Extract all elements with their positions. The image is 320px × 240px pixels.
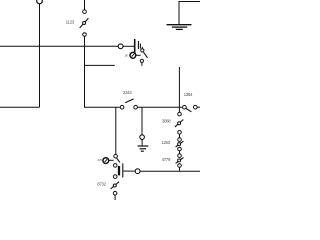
- ground G1 (top right): [167, 25, 192, 30]
- wire bottom bus y=171.4 to right edge: [140, 170, 200, 172]
- switch blade R1-R2: [144, 52, 148, 58]
- switch S5 blade with rotor circle: [111, 182, 120, 189]
- wire from top-right corner: [179, 2, 200, 25]
- wire battery to connector C3: [123, 170, 135, 172]
- switch K1 top terminal: [178, 112, 182, 116]
- wire main bus y=107 right segment: [137, 106, 182, 108]
- terminal R2: [140, 59, 143, 62]
- switch SW2 blade (open): [125, 99, 133, 103]
- switch S1 blade with rotor circle: [80, 18, 89, 28]
- battery B1 thin plate: [122, 163, 124, 177]
- switch SW2 right terminal: [134, 105, 138, 109]
- switch K1 bottom terminal: [178, 131, 182, 135]
- switch SW2 left terminal: [120, 105, 124, 109]
- wire from T1 down to corner at y=107: [39, 4, 41, 107]
- svg-text:26: 26: [125, 54, 129, 58]
- svg-text:4779: 4779: [162, 157, 171, 162]
- switch S5 bottom terminal: [113, 191, 117, 195]
- switch SW3 left terminal: [183, 105, 187, 109]
- wire horizontal bus y=46 left segment: [0, 45, 118, 47]
- wire stub east at y=65: [85, 64, 115, 66]
- gauge M2 ring: [103, 158, 109, 164]
- switch SW4 blade (open): [117, 158, 120, 162]
- wire drop to lamp L1 at x=142: [141, 107, 143, 134]
- switch SW4 top terminal: [114, 154, 118, 158]
- connector circle C2 on bus y=46: [118, 44, 123, 49]
- wire stub below R2: [141, 63, 143, 66]
- connector circle C3: [135, 169, 140, 174]
- wire K1 to K2: [179, 134, 181, 138]
- wire K3 to bottom bus: [179, 167, 181, 171]
- lamp L1 circle: [140, 135, 145, 140]
- switch K2 blade with rotor circle: [176, 141, 184, 147]
- wire from C2 to connector bars: [123, 45, 134, 47]
- ground G2: [138, 146, 149, 151]
- svg-text:8732: 8732: [97, 182, 106, 187]
- svg-text:1123: 1123: [66, 20, 75, 25]
- connector circle T1 (top left, cut by edge): [37, 0, 43, 4]
- gauge M1 ring: [130, 52, 136, 58]
- switch SW4 bottom terminal: [113, 164, 117, 168]
- terminal R1: [141, 49, 144, 52]
- switch S1 bottom terminal: [83, 33, 87, 37]
- connector J1 bar 1: [134, 39, 136, 54]
- svg-text:2343: 2343: [123, 90, 132, 95]
- switch K2 top terminal: [178, 138, 182, 142]
- wire stub above R1 terminal: [141, 47, 143, 49]
- wire L1 to ground: [141, 139, 143, 145]
- switch K3 blade with rotor circle: [176, 158, 184, 164]
- svg-text:1384: 1384: [184, 92, 193, 97]
- battery B1 thick plate: [118, 166, 120, 175]
- switch SW3 blade (open, drooping): [186, 109, 191, 112]
- switch S5 top terminal: [113, 175, 117, 179]
- switch K3 bottom terminal: [178, 164, 182, 168]
- switch K1 blade with rotor circle: [175, 120, 183, 127]
- switch S1 top terminal: [83, 10, 87, 14]
- wire vertical branch x=179.3 from y=67 through bus: [178, 67, 180, 112]
- wire SW3 to right edge: [197, 106, 200, 108]
- wire K2 to K3: [179, 151, 181, 154]
- connector J1 bar 2: [137, 41, 139, 49]
- wire from S1 down then right to node B: [85, 36, 121, 107]
- switch SW3 right terminal: [194, 105, 198, 109]
- svg-text:470: 470: [98, 158, 103, 162]
- wire M1 to blade: [136, 54, 141, 56]
- wire S5 to bottom edge: [114, 195, 116, 200]
- wire M2 to switch SW4: [109, 159, 114, 161]
- connector J1 bar 3: [139, 44, 141, 49]
- switch K3 top terminal: [178, 154, 182, 158]
- svg-text:3088: 3088: [162, 118, 171, 123]
- svg-text:1253: 1253: [161, 140, 170, 145]
- wire corner left to edge at y=107: [0, 106, 40, 108]
- switch K2 bottom terminal: [178, 147, 182, 151]
- wire drop from node B down: [115, 107, 117, 154]
- wire feeding switch S1 from top edge: [84, 0, 86, 10]
